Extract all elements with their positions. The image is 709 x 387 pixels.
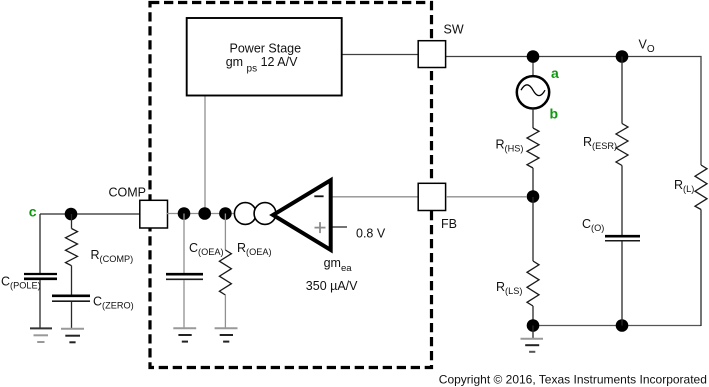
wire: power stage output to SW pin: [342, 54, 418, 56]
minus sign: [314, 195, 323, 197]
resistor R(ESR): [616, 124, 628, 166]
resistor R(L): [695, 165, 707, 210]
resistor R(LS): [527, 261, 539, 306]
wire: node c to COMP pin: [40, 213, 141, 215]
svg-text:R(HS): R(HS): [496, 138, 524, 154]
plus sign: [315, 222, 326, 233]
svg-text:FB: FB: [441, 217, 457, 231]
svg-text:R(COMP): R(COMP): [91, 248, 134, 264]
wire: R(LS) to ground rail: [532, 306, 534, 326]
wire: dot1 down through C(OEA) to ground: [183, 214, 185, 275]
capacitor C(OEA): [166, 274, 203, 279]
wire: R(L) to bottom rail: [700, 210, 702, 327]
svg-text:c: c: [29, 204, 37, 220]
resistor R(HS): [527, 128, 539, 168]
ground under C(OEA): [173, 328, 196, 341]
wire: C(O) to bottom rail: [621, 242, 623, 326]
wire: dot3 down to R(OEA): [224, 214, 226, 251]
wire: C(OEA) bottom to ground: [183, 280, 185, 328]
sine wave inside AC source: [521, 85, 545, 96]
svg-text:R(LS): R(LS): [496, 280, 522, 296]
ground under R(OEA): [215, 328, 238, 341]
svg-text:0.8 V: 0.8 V: [356, 227, 386, 241]
pin FB: [418, 183, 445, 210]
wire: FB pin to divider node: [446, 196, 527, 198]
svg-text:SW: SW: [444, 23, 464, 37]
capacitor C(POLE): [24, 274, 57, 279]
junction dot on comp net: [65, 208, 78, 221]
wire: divider node to R(LS): [532, 197, 534, 261]
wire: Vo node down to R(ESR): [621, 57, 623, 124]
junction dot at Vo: [616, 50, 629, 63]
wire: C(ZERO) to ground: [71, 302, 73, 329]
wire: top rail SW to Vo corner: [446, 57, 701, 166]
wire: AC source to R(HS): [532, 109, 534, 129]
capacitor C(O): [605, 236, 640, 241]
wire: COMP pin to gm circles: [167, 213, 240, 215]
wire: power stage bottom to node dot2: [204, 95, 206, 214]
wire: R(ESR) to C(O): [621, 166, 623, 236]
resistor R(COMP): [66, 229, 78, 266]
gm output circle 2: [254, 203, 276, 225]
svg-text:a: a: [551, 65, 559, 81]
wire: op-amp minus to FB pin: [331, 196, 418, 198]
ground under C(POLE): [30, 328, 52, 342]
svg-text:C(POLE): C(POLE): [1, 275, 41, 291]
junction dot 2 (power stage): [198, 207, 211, 220]
wire: junction down to R(COMP): [71, 214, 73, 229]
resistor R(OEA): [219, 250, 231, 295]
power stage box U1: [187, 18, 342, 96]
svg-text:Power Stage: Power Stage: [230, 41, 302, 55]
junction dot 1 (C(OEA)): [178, 207, 191, 220]
svg-text:b: b: [550, 106, 559, 122]
op-amp triangle gm_ea: [273, 180, 331, 250]
wire: plus input stub: [331, 226, 347, 228]
svg-text:C(ZERO): C(ZERO): [93, 295, 134, 311]
bottom rail: [533, 325, 701, 327]
junction dot 3 (R(OEA)): [219, 207, 232, 220]
capacitor C(ZERO): [52, 296, 90, 301]
AC source (injection): [517, 76, 549, 108]
svg-text:R(L): R(L): [674, 178, 694, 194]
dashed converter boundary box: [150, 3, 432, 368]
svg-text:C(O): C(O): [582, 217, 604, 233]
wire: node c down to C(POLE): [39, 214, 41, 274]
pin COMP: [140, 200, 168, 228]
wire: C(POLE) to ground: [39, 280, 41, 329]
junction dot at FB divider node: [527, 190, 540, 203]
svg-text:350 µA/V: 350 µA/V: [306, 279, 358, 293]
svg-text:R(OEA): R(OEA): [237, 241, 272, 257]
svg-text:COMP: COMP: [109, 185, 147, 199]
wire: R(OEA) to ground: [224, 295, 226, 328]
pin SW: [418, 41, 445, 68]
junction dot bottom at C(O): [616, 319, 629, 332]
ground under C(ZERO): [61, 329, 84, 343]
junction dot at SW rail / AC source: [527, 50, 540, 63]
svg-text:VO: VO: [639, 38, 655, 56]
gm output circle 1: [234, 203, 256, 225]
junction dot bottom left: [527, 319, 540, 332]
svg-text:C(OEA): C(OEA): [189, 241, 224, 257]
wire: junction a down to AC source: [532, 57, 534, 77]
wire: R(COMP) to C(ZERO): [71, 266, 73, 295]
svg-text:R(ESR): R(ESR): [583, 135, 617, 151]
ground under R(LS): [521, 326, 544, 352]
svg-text:Copyright © 2016, Texas Instru: Copyright © 2016, Texas Instruments Inco…: [439, 373, 707, 387]
wire: R(HS) to FB node: [532, 168, 534, 197]
svg-text:gmea: gmea: [324, 256, 353, 274]
